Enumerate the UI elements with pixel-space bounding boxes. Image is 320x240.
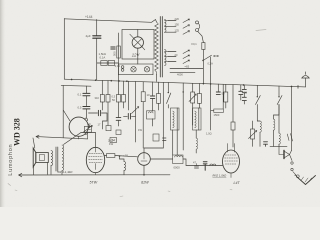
switch S2	[167, 83, 171, 109]
wire OT to tube V3	[64, 133, 96, 148]
power supply box	[117, 33, 119, 81]
wire grid line with arrow	[36, 135, 88, 139]
mains plug pins	[196, 21, 199, 24]
resistor R7	[118, 81, 120, 126]
switch S4	[274, 86, 283, 119]
capacitor C1	[93, 36, 101, 38]
wire column	[182, 83, 184, 150]
choke coil Dr1	[120, 156, 125, 162]
capacitor C5 in wire	[89, 113, 108, 129]
lamp L2	[144, 67, 149, 72]
potentiometer P2	[192, 83, 194, 125]
tube V5	[223, 150, 240, 173]
box component Wd	[110, 138, 117, 143]
capacitor C12	[203, 162, 207, 171]
capacitor C7b	[116, 118, 121, 121]
capacitor C4	[83, 107, 90, 109]
wire long column	[162, 82, 164, 148]
wire OT leads down	[48, 163, 63, 175]
transformer T1 core	[160, 17, 162, 78]
IF coil box L3	[193, 108, 202, 130]
potentiometer P0	[85, 126, 92, 132]
wire fuse to bus	[202, 50, 204, 84]
potentiometer P3	[252, 121, 254, 146]
secondary lead bottom b	[168, 56, 176, 58]
capacitor C10 stack	[243, 85, 245, 104]
secondary lead 125	[168, 31, 176, 33]
resistor R8	[142, 82, 144, 148]
dust specks	[8, 184, 232, 197]
fuse Si1	[121, 66, 124, 69]
selector arrows bottom	[183, 50, 190, 64]
resistor R10	[198, 84, 200, 109]
node antenna junction	[297, 86, 299, 89]
capacitor C7	[152, 82, 154, 111]
coil box L1	[147, 111, 156, 119]
capacitor C6 in wire	[124, 81, 136, 116]
fuse F1	[198, 31, 204, 42]
coil L4	[196, 108, 199, 138]
rectifier tube V1	[132, 37, 143, 48]
wire antenna column	[291, 86, 293, 150]
tube V4	[138, 153, 151, 166]
secondary lead 150	[168, 25, 176, 27]
secondary lead bottom c	[168, 61, 176, 63]
coil L6	[274, 119, 275, 130]
resistor R6	[107, 81, 109, 126]
selector arrows top	[183, 19, 190, 34]
second bus (left box top)	[61, 84, 91, 87]
resistor R9	[158, 82, 160, 110]
resistor R12	[232, 85, 234, 147]
resistor R4 2k	[105, 156, 138, 157]
title text	[8, 118, 22, 175]
plug pins	[291, 162, 293, 164]
resistor R3 500ohm	[117, 46, 121, 58]
rectifier inner box	[122, 30, 154, 60]
wire bottom rail	[19, 173, 171, 176]
wire top-left vertical	[63, 19, 65, 80]
capacitor C11	[196, 164, 198, 166]
resistor R5b	[106, 126, 111, 131]
coil L7	[278, 105, 280, 134]
secondary lead 220	[168, 20, 176, 22]
secondary lead bottom a	[168, 51, 176, 53]
wire speaker bottom	[33, 167, 35, 175]
antenna A	[302, 72, 309, 87]
main bus	[64, 79, 305, 87]
IF can box bottom	[173, 155, 183, 164]
tube V2	[69, 117, 88, 136]
resistor R5	[101, 80, 103, 110]
tube V3 output	[86, 147, 104, 172]
earth symbol	[297, 176, 316, 185]
capacitor C9	[240, 85, 242, 100]
node dots on bus	[71, 79, 293, 88]
coil L5	[257, 120, 260, 122]
transformer T1 secondary windings	[164, 20, 168, 66]
lamp box	[118, 64, 153, 75]
potentiometer P1	[135, 82, 137, 143]
transformer T1 primary	[155, 22, 159, 75]
output transformer T2	[51, 145, 64, 171]
resistor R1	[101, 61, 107, 66]
capacitor C8	[217, 84, 219, 92]
wire detector rail	[270, 145, 287, 147]
wire heater run 2	[170, 71, 195, 73]
capacitor C3	[85, 86, 87, 118]
capacitor C2 small	[111, 47, 115, 49]
switch S3	[256, 85, 261, 121]
switch S1	[203, 55, 212, 60]
coil L8	[210, 164, 216, 166]
wire box left edge	[62, 86, 64, 138]
box component 1500	[211, 57, 224, 130]
node +18	[119, 155, 121, 157]
wire heater run	[170, 68, 203, 70]
fold mark	[256, 30, 266, 31]
resistor R7c	[123, 81, 125, 108]
resistor R11	[225, 84, 227, 108]
IF coil box L2	[171, 108, 180, 130]
resistor R2	[108, 61, 114, 66]
wire filter cap branch	[97, 20, 119, 81]
wire top B+ line	[64, 19, 156, 23]
resistor R7b	[116, 130, 121, 135]
lamp L1	[131, 67, 136, 72]
speaker LS	[33, 148, 36, 167]
wire tube V4 to boxes	[150, 159, 222, 166]
jack J1	[283, 151, 285, 159]
small box component	[153, 134, 159, 141]
